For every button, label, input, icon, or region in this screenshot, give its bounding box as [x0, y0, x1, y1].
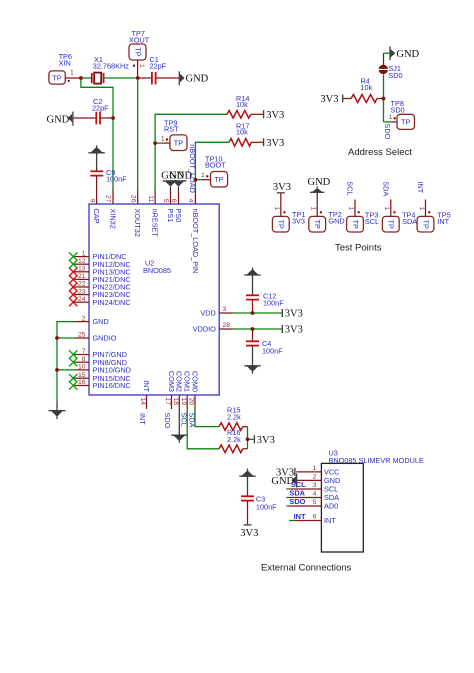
svg-text:XIN: XIN	[59, 58, 71, 67]
svg-text:SD0: SD0	[391, 105, 405, 114]
svg-text:10k: 10k	[236, 100, 248, 109]
test point TP5	[417, 200, 451, 233]
resistor R4 10k	[351, 76, 384, 102]
svg-text:2.2k: 2.2k	[227, 435, 241, 444]
svg-text:2.2k: 2.2k	[227, 413, 241, 422]
svg-text:1: 1	[313, 465, 317, 472]
svg-text:SD0: SD0	[388, 71, 402, 80]
node pullup junction	[246, 437, 250, 441]
svg-text:6: 6	[313, 514, 317, 521]
U3 pin 5 AD0	[286, 497, 338, 511]
test point TP7	[129, 29, 150, 78]
svg-text:27: 27	[105, 195, 112, 203]
svg-text:25: 25	[78, 332, 86, 339]
capacitor C9 100nF	[90, 168, 127, 190]
svg-text:Address Select: Address Select	[348, 147, 412, 158]
svg-text:External Connections: External Connections	[261, 562, 352, 573]
U3 pin 3 SCL	[286, 480, 338, 494]
svg-text:nRESET: nRESET	[151, 209, 160, 238]
svg-text:INT: INT	[138, 413, 147, 425]
svg-text:3V3: 3V3	[266, 138, 284, 149]
svg-text:1: 1	[161, 136, 165, 143]
svg-text:1: 1	[310, 207, 317, 211]
svg-text:GND: GND	[47, 115, 70, 126]
svg-text:3: 3	[313, 482, 317, 489]
svg-text:13: 13	[78, 266, 86, 273]
U2 left DNC pin stubs	[73, 257, 89, 386]
node nRESET junction at TP9	[153, 141, 157, 145]
svg-text:GND: GND	[93, 317, 109, 326]
svg-text:21: 21	[78, 273, 86, 280]
svg-text:SDO: SDO	[289, 497, 305, 506]
svg-text:TP: TP	[401, 118, 410, 127]
svg-text:BNO085: BNO085	[143, 266, 171, 275]
svg-text:10k: 10k	[361, 83, 373, 92]
svg-text:3V3: 3V3	[257, 435, 275, 446]
U2 bottom pin names	[142, 371, 200, 393]
svg-text:INT: INT	[416, 182, 425, 194]
svg-text:XOUT32: XOUT32	[133, 209, 142, 237]
svg-text:3V3: 3V3	[285, 309, 303, 320]
wire nBOOT_LOAD net	[195, 142, 229, 190]
svg-text:TP: TP	[387, 220, 396, 229]
svg-text:SDO: SDO	[383, 124, 392, 140]
U3 pin 6 INT	[289, 512, 336, 525]
svg-text:100nF: 100nF	[262, 347, 283, 356]
svg-text:11: 11	[147, 195, 154, 202]
svg-text:SDA: SDA	[402, 217, 417, 226]
svg-text:100nF: 100nF	[106, 175, 127, 184]
U2 right pin VDDIO 28	[193, 322, 233, 333]
power flag 3V3 above TP1	[273, 182, 291, 217]
resistor R16 2.2k	[219, 428, 248, 453]
svg-text:PS0: PS0	[174, 209, 183, 223]
ground symbol above C3	[239, 469, 255, 497]
power flag 3V3 at VDDIO	[282, 325, 303, 336]
svg-text:3V3: 3V3	[266, 110, 284, 121]
svg-text:GND: GND	[186, 74, 209, 85]
capacitor C2 22pF	[92, 97, 113, 124]
no-connect X marks red	[69, 268, 77, 307]
power flag 3V3 below C3	[240, 525, 258, 539]
svg-text:SDO: SDO	[163, 413, 172, 429]
wire VDD net	[233, 312, 282, 314]
svg-text:INT: INT	[324, 516, 336, 525]
svg-text:TP: TP	[133, 47, 142, 56]
svg-text:XOUT: XOUT	[129, 35, 150, 44]
svg-text:28: 28	[223, 322, 231, 329]
resistor R15 2.2k	[219, 406, 248, 431]
svg-text:1: 1	[82, 250, 86, 257]
svg-text:6: 6	[170, 199, 177, 203]
wire SDA net to R15	[195, 409, 219, 427]
svg-text:3V3: 3V3	[240, 528, 258, 539]
svg-text:2: 2	[82, 315, 86, 322]
svg-text:SCL: SCL	[365, 217, 379, 226]
svg-text:5: 5	[313, 499, 317, 506]
power flag 3V3 at R17	[264, 138, 285, 149]
U2 bottom pin numbers	[139, 398, 195, 406]
wire VDDIO net	[233, 328, 282, 330]
svg-text:1: 1	[138, 64, 145, 68]
ground symbol bottom of rail	[49, 402, 66, 419]
node VDD junction	[251, 311, 255, 315]
ground symbol above TP2	[308, 177, 331, 217]
svg-text:nBOOT_LOAD_PIN: nBOOT_LOAD_PIN	[191, 209, 200, 274]
svg-text:100nF: 100nF	[263, 298, 284, 307]
svg-text:32.768KHz: 32.768KHz	[93, 61, 129, 70]
solder jumper SJ1 SD0	[379, 64, 403, 80]
svg-text:26: 26	[129, 195, 136, 203]
resistor R17 10k	[229, 122, 263, 147]
svg-text:16: 16	[78, 379, 86, 386]
capacitor C12 100nF	[246, 291, 284, 313]
capacitor C4 100nF	[246, 329, 283, 356]
svg-text:TP: TP	[421, 220, 430, 229]
ground symbol at PS0 pin 6	[169, 170, 192, 190]
ground symbol below C4	[244, 346, 260, 374]
power flag 3V3 at pullups	[254, 435, 274, 446]
resistor R14 10k	[227, 94, 263, 118]
svg-text:GND: GND	[328, 216, 344, 225]
svg-text:1: 1	[201, 172, 205, 179]
svg-text:9: 9	[88, 199, 95, 203]
svg-text:1: 1	[389, 114, 393, 121]
ground symbol at COM2	[171, 409, 187, 443]
node XOUT junction	[136, 76, 140, 80]
svg-text:1: 1	[383, 207, 390, 211]
test point TP1	[272, 207, 305, 233]
svg-text:23: 23	[78, 288, 86, 295]
svg-text:24: 24	[78, 296, 86, 303]
U2 left pin numbers	[78, 250, 86, 386]
svg-text:18: 18	[172, 398, 179, 406]
svg-text:Test Points: Test Points	[335, 242, 382, 253]
svg-text:3V3: 3V3	[273, 182, 291, 193]
svg-text:10k: 10k	[236, 128, 248, 137]
U2 left pin names	[93, 252, 132, 390]
svg-text:COM1: COM1	[183, 371, 192, 392]
svg-text:XIN32: XIN32	[108, 209, 117, 229]
svg-text:INT: INT	[294, 512, 306, 521]
node C2/XIN junction	[111, 116, 115, 120]
svg-text:22pF: 22pF	[92, 104, 109, 113]
svg-text:GND: GND	[169, 170, 192, 181]
svg-text:RST: RST	[164, 124, 179, 133]
svg-text:20: 20	[188, 398, 195, 406]
op-amp U2 BNO085 body	[89, 204, 219, 395]
svg-text:CAP: CAP	[92, 209, 101, 224]
U2 right pin VDD 3	[200, 306, 233, 317]
power flag 3V3 at R14	[264, 110, 285, 121]
svg-text:COM3: COM3	[167, 371, 176, 392]
svg-text:TP: TP	[277, 220, 286, 229]
wire SDO net vertical	[384, 74, 392, 122]
svg-text:14: 14	[139, 398, 146, 406]
no-connect X marks green	[69, 252, 77, 389]
svg-text:5: 5	[162, 199, 169, 203]
svg-text:10: 10	[78, 364, 86, 371]
svg-text:1: 1	[418, 207, 425, 211]
U3 pin 1 VCC with 3V3 flag	[276, 465, 339, 478]
svg-text:PS1: PS1	[166, 209, 175, 223]
svg-text:PIN16/DNC: PIN16/DNC	[93, 381, 131, 390]
svg-text:SCL: SCL	[346, 181, 355, 195]
svg-text:GNDIO: GNDIO	[93, 334, 117, 343]
svg-text:nBOOT_LOAD: nBOOT_LOAD	[188, 144, 197, 193]
svg-text:SDA: SDA	[382, 181, 391, 196]
svg-text:1: 1	[70, 69, 74, 76]
test point TP10	[201, 155, 228, 188]
node VDDIO junction	[251, 327, 255, 331]
node nBOOT junction at TP10	[194, 178, 198, 182]
test point TP6	[49, 52, 81, 84]
svg-text:INT: INT	[437, 217, 449, 226]
power flag 3V3 at VDD	[282, 309, 303, 320]
svg-text:TP: TP	[313, 220, 322, 229]
test point TP8	[389, 99, 415, 130]
test point TP9	[161, 118, 187, 150]
svg-text:12: 12	[78, 258, 86, 265]
U3 pin 4 SDA	[286, 489, 339, 503]
ground symbol at PS1 pin 5	[161, 170, 184, 190]
test point TP2	[309, 207, 345, 233]
ground symbol above C9	[88, 145, 104, 171]
wire XOUT32 net down to pin 26	[137, 78, 139, 190]
test point TP4	[382, 200, 417, 233]
svg-text:8: 8	[82, 356, 86, 363]
capacitor C3 100nF	[241, 494, 277, 525]
svg-text:PIN24/DNC: PIN24/DNC	[93, 298, 131, 307]
svg-text:GND: GND	[308, 177, 331, 188]
svg-text:3V3: 3V3	[320, 94, 338, 105]
svg-text:COM2: COM2	[175, 371, 184, 392]
svg-text:VDD: VDD	[200, 309, 215, 318]
svg-text:15: 15	[78, 372, 86, 379]
wire XIN net	[81, 78, 113, 190]
svg-text:4: 4	[313, 491, 317, 498]
power flag 3V3 at R4	[320, 94, 351, 105]
svg-text:INT: INT	[142, 380, 151, 392]
U2 bottom pin stubs	[147, 395, 196, 409]
svg-text:AD0: AD0	[324, 502, 338, 511]
svg-text:1: 1	[273, 207, 280, 211]
ground flag left of C2	[47, 112, 96, 126]
svg-text:TP: TP	[52, 73, 61, 82]
svg-text:22: 22	[78, 281, 86, 288]
svg-text:TP: TP	[214, 175, 223, 184]
svg-text:TP: TP	[351, 220, 360, 229]
node PIN10 junction	[55, 368, 59, 372]
crystal X1 32.768KHz	[92, 55, 138, 84]
svg-text:3V3: 3V3	[285, 325, 303, 336]
wire GND rail left of U2	[57, 322, 75, 403]
wire nRESET net	[155, 114, 227, 190]
svg-text:22pF: 22pF	[150, 61, 167, 70]
U2 top pin stubs	[97, 190, 196, 204]
U2 top pin numbers	[88, 195, 194, 203]
svg-text:BOOT: BOOT	[205, 161, 226, 170]
ground flag right of C1	[179, 71, 208, 85]
svg-text:COM0: COM0	[190, 371, 199, 392]
node XIN junction at TP6	[79, 76, 83, 80]
node GNDIO junction	[55, 336, 59, 340]
wire SCL net to R16	[187, 409, 219, 449]
svg-text:TP: TP	[174, 138, 183, 147]
U2 top pin names	[92, 209, 200, 274]
wire R15-R16 to 3V3	[248, 427, 255, 449]
svg-text:VDDIO: VDDIO	[193, 325, 216, 334]
svg-text:7: 7	[82, 348, 86, 355]
svg-text:19: 19	[180, 398, 187, 406]
svg-text:4: 4	[187, 199, 194, 203]
node R4/SDO junction	[382, 97, 386, 101]
svg-text:17: 17	[164, 398, 171, 406]
svg-text:1: 1	[347, 207, 354, 211]
ground flag top of address select	[384, 46, 420, 65]
svg-text:3V3: 3V3	[292, 216, 305, 225]
ground symbol above C12	[244, 268, 260, 296]
svg-text:GND: GND	[396, 49, 419, 60]
connector U3 BNO085 SLIMEVR MODULE body	[321, 449, 424, 552]
test point TP3	[347, 200, 380, 233]
svg-text:3: 3	[223, 306, 227, 313]
U3 pin 2 GND with ground flag	[271, 473, 340, 487]
svg-text:2: 2	[313, 474, 317, 481]
capacitor C1 22pF	[138, 55, 179, 85]
svg-text:100nF: 100nF	[256, 503, 277, 512]
